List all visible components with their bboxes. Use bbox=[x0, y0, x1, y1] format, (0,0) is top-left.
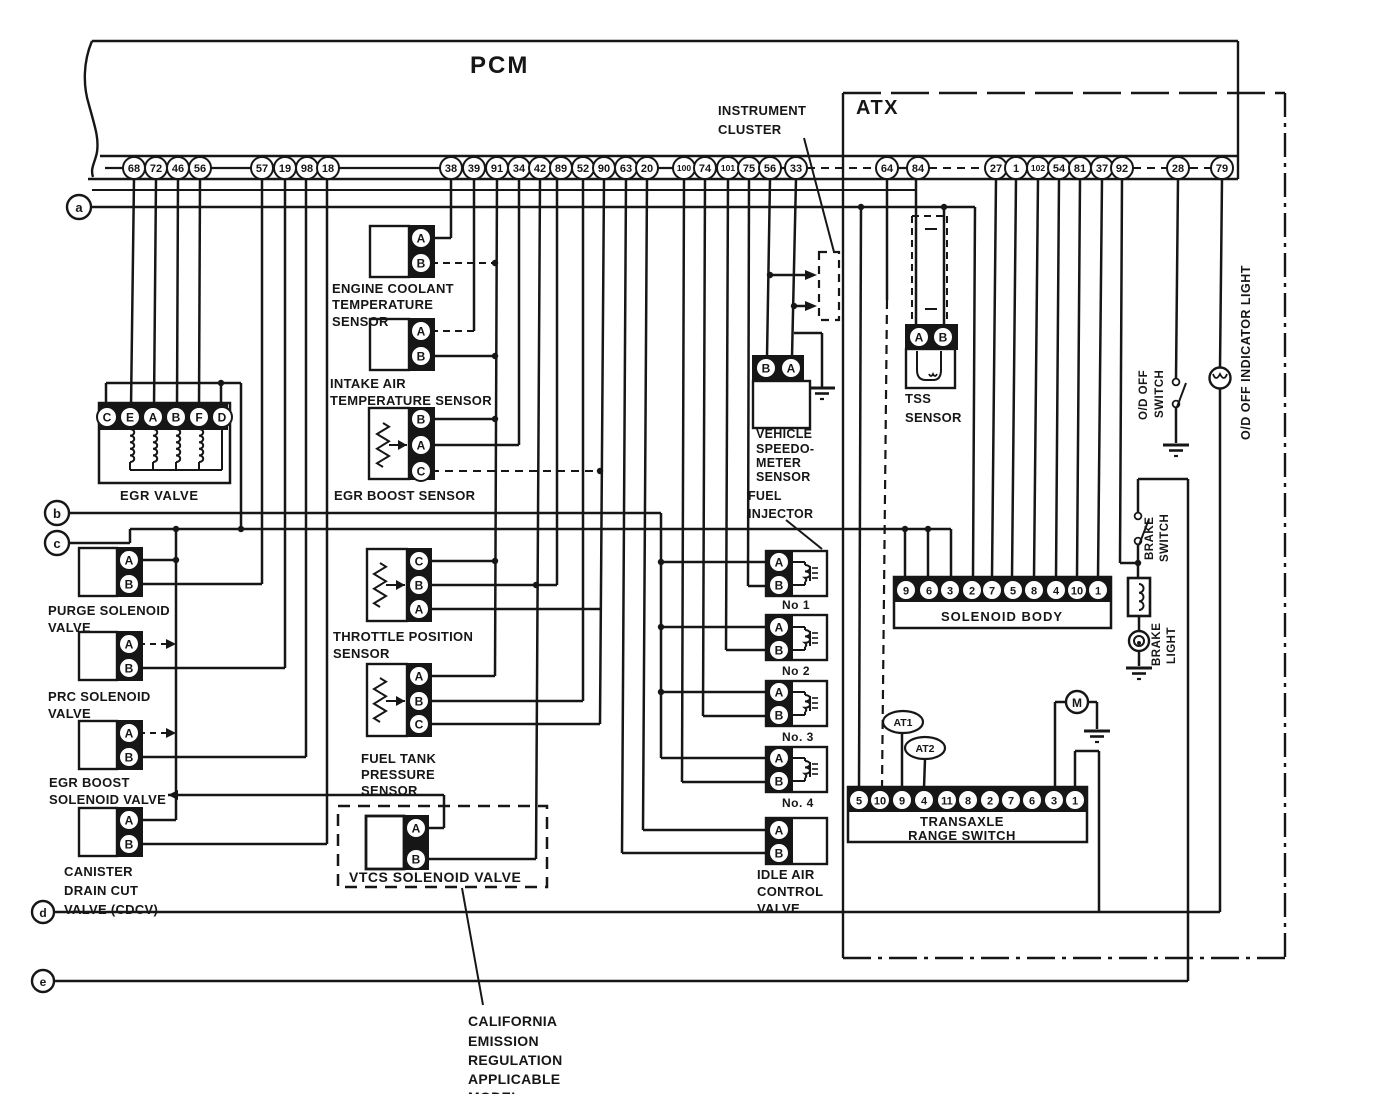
EGR boost sensor symbol bbox=[369, 408, 434, 481]
svg-text:SENSOR: SENSOR bbox=[756, 470, 811, 484]
PRC solenoid valve symbol bbox=[79, 632, 117, 680]
wire injector No2 A supply bbox=[661, 626, 766, 629]
svg-text:MODEL: MODEL bbox=[468, 1089, 520, 1094]
svg-text:O/D OFF: O/D OFF bbox=[1138, 370, 1150, 420]
svg-text:5: 5 bbox=[856, 795, 862, 807]
connector AT1 bbox=[883, 711, 923, 733]
PCM pin 84 bbox=[907, 157, 929, 179]
wire brake switch top to bus e riser bbox=[1138, 478, 1188, 481]
wire VTCS solenoid A supply with arrow bbox=[168, 790, 444, 828]
svg-text:3: 3 bbox=[1051, 795, 1057, 807]
svg-text:INTAKE AIR: INTAKE AIR bbox=[330, 376, 406, 391]
svg-text:e: e bbox=[40, 975, 47, 989]
svg-text:1: 1 bbox=[1072, 795, 1078, 807]
PCM pin 19 bbox=[274, 157, 296, 179]
fuel tank pressure sensor symbol bbox=[367, 664, 431, 736]
svg-text:B: B bbox=[417, 256, 426, 270]
svg-text:AT2: AT2 bbox=[915, 743, 934, 755]
wire IAC A to PCM pin 20 bbox=[643, 179, 766, 830]
svg-text:VEHICLE: VEHICLE bbox=[756, 427, 812, 441]
svg-text:B: B bbox=[775, 774, 784, 788]
svg-text:No 2: No 2 bbox=[782, 664, 810, 678]
transaxle range switch box bbox=[848, 787, 1087, 842]
junction a / TSS pin B wire bbox=[941, 204, 947, 210]
wire fuse to brake light bbox=[1138, 616, 1141, 631]
wire TPS A to wire 90 bbox=[429, 608, 600, 611]
wire injector No3 B to PCM pin 74 bbox=[703, 179, 766, 716]
TSS sensor connector bbox=[906, 325, 957, 349]
svg-text:A: A bbox=[417, 324, 426, 338]
svg-text:B: B bbox=[125, 750, 134, 764]
wire c to solenoid body pin 9 bbox=[904, 529, 907, 578]
svg-text:BRAKE: BRAKE bbox=[1144, 517, 1156, 560]
PCM controller box outline bbox=[85, 41, 1238, 179]
wire PCM pin 56 to VSS B bbox=[767, 179, 770, 357]
svg-text:3: 3 bbox=[947, 585, 953, 597]
svg-text:SPEEDO-: SPEEDO- bbox=[756, 442, 814, 456]
PCM pin 20 bbox=[636, 157, 658, 179]
svg-text:EMISSION: EMISSION bbox=[468, 1033, 539, 1049]
svg-text:A: A bbox=[415, 602, 424, 616]
wire PCM pin 81 to solenoid body pin 10 bbox=[1077, 179, 1080, 577]
svg-text:A: A bbox=[125, 813, 134, 827]
svg-text:No. 3: No. 3 bbox=[782, 730, 814, 744]
PCM pin 39 bbox=[463, 157, 485, 179]
svg-text:CANISTER: CANISTER bbox=[64, 864, 133, 879]
PCM pin 38 bbox=[440, 157, 462, 179]
wire c to solenoid body pin 6 bbox=[927, 529, 930, 578]
idle air control valve symbol bbox=[766, 818, 827, 864]
svg-text:TEMPERATURE: TEMPERATURE bbox=[332, 297, 433, 312]
wire FTP A end of wire 91 bbox=[429, 675, 495, 678]
wire PCM pin 37 to solenoid body pin 1 bbox=[1098, 179, 1102, 577]
page connector b bbox=[45, 501, 69, 525]
svg-text:57: 57 bbox=[256, 163, 268, 175]
svg-text:RANGE SWITCH: RANGE SWITCH bbox=[908, 828, 1016, 843]
wire PCM pin 42 to VTCS solenoid B bbox=[536, 179, 540, 859]
svg-text:98: 98 bbox=[301, 163, 313, 175]
svg-text:56: 56 bbox=[194, 163, 206, 175]
svg-text:1: 1 bbox=[1013, 163, 1019, 175]
wire injector No2 B to PCM pin 101 bbox=[726, 179, 766, 650]
wire PCM pin 64 to transaxle range switch pin 10 (dashed) bbox=[882, 179, 887, 787]
svg-text:102: 102 bbox=[1031, 163, 1045, 173]
PCM pin 101 bbox=[717, 157, 739, 179]
wire PCM pin 46 to EGR valve pin B bbox=[177, 179, 178, 407]
wire transaxle pin 3 to pump motor bbox=[1055, 702, 1066, 788]
canister drain cut valve symbol bbox=[79, 808, 117, 856]
svg-text:89: 89 bbox=[555, 163, 567, 175]
arrow wire to instrument cluster lower bbox=[794, 301, 817, 311]
EGR valve solenoid coils bbox=[130, 427, 222, 470]
svg-text:No 1: No 1 bbox=[782, 598, 810, 612]
svg-text:B: B bbox=[775, 578, 784, 592]
VEHICLE SPEEDOMETER SENSOR label bbox=[756, 427, 814, 484]
svg-text:THROTTLE POSITION: THROTTLE POSITION bbox=[333, 629, 473, 644]
svg-text:A: A bbox=[775, 620, 784, 634]
svg-text:INSTRUMENT: INSTRUMENT bbox=[718, 103, 806, 118]
svg-text:A: A bbox=[415, 669, 424, 683]
EGR valve connector strip bbox=[97, 405, 232, 429]
page connector e bbox=[32, 970, 54, 992]
wire PCM pin 84 shielded to TSS A bbox=[915, 179, 918, 328]
brake switch symbol bbox=[1135, 479, 1149, 578]
wire purge solenoid B to PCM pin 57 bbox=[139, 179, 262, 584]
svg-text:CALIFORNIA: CALIFORNIA bbox=[468, 1013, 557, 1029]
svg-text:81: 81 bbox=[1074, 163, 1086, 175]
svg-text:D: D bbox=[218, 410, 227, 424]
svg-text:A: A bbox=[915, 330, 924, 344]
svg-text:O/D OFF INDICATOR LIGHT: O/D OFF INDICATOR LIGHT bbox=[1239, 265, 1253, 440]
PCM pin 27 bbox=[985, 157, 1007, 179]
svg-text:E: E bbox=[126, 410, 134, 424]
svg-text:10: 10 bbox=[1071, 585, 1083, 597]
svg-text:FUEL TANK: FUEL TANK bbox=[361, 751, 436, 766]
wire injector No4 B to PCM pin 100 bbox=[682, 179, 766, 782]
svg-text:A: A bbox=[417, 231, 426, 245]
PCM pin 91 bbox=[486, 157, 508, 179]
svg-text:100: 100 bbox=[677, 163, 691, 173]
wire TPS C to wire 91 bbox=[429, 560, 495, 563]
svg-text:SWITCH: SWITCH bbox=[1159, 514, 1171, 562]
VTCS solenoid valve symbol bbox=[366, 816, 428, 869]
arrow wire to instrument cluster upper bbox=[770, 270, 817, 280]
svg-text:79: 79 bbox=[1216, 163, 1228, 175]
ATX transmission boundary box bbox=[843, 93, 1285, 958]
svg-text:B: B bbox=[417, 349, 426, 363]
svg-text:A: A bbox=[125, 553, 134, 567]
wire AT2 to transaxle pin 4 bbox=[924, 759, 925, 788]
PCM pin 100 bbox=[673, 157, 695, 179]
junction c / solenoid body pin 9 bbox=[902, 526, 908, 532]
svg-text:4: 4 bbox=[921, 795, 928, 807]
page connector a bbox=[67, 195, 91, 219]
PCM pin 92 bbox=[1111, 157, 1133, 179]
PCM pin 75 bbox=[738, 157, 760, 179]
svg-text:9: 9 bbox=[903, 585, 909, 597]
svg-text:No. 4: No. 4 bbox=[782, 796, 814, 810]
svg-text:6: 6 bbox=[926, 585, 932, 597]
wire PCM pin 54 to solenoid body pin 4 bbox=[1056, 179, 1059, 577]
svg-text:VALVE (CDCV): VALVE (CDCV) bbox=[64, 902, 158, 917]
wire EGR boost sensor C to wire 90 (dashed) bbox=[431, 470, 596, 472]
svg-text:B: B bbox=[775, 708, 784, 722]
purge solenoid valve symbol bbox=[79, 548, 117, 596]
EGR boost sensor internal potentiometer bbox=[377, 423, 407, 467]
svg-text:a: a bbox=[75, 200, 83, 215]
wire PCM pin 92 to brake switch bbox=[1120, 179, 1138, 563]
PCM pin 90 bbox=[593, 157, 615, 179]
wire injector No1 A supply bbox=[661, 561, 766, 564]
junction TPS C / wire 91 bbox=[492, 558, 498, 564]
fuel injector No 3 symbol bbox=[766, 681, 827, 726]
engine coolant temperature sensor symbol bbox=[370, 226, 409, 277]
junction c / EGR valve return riser bbox=[238, 526, 244, 532]
PCM pin 63 bbox=[615, 157, 637, 179]
solenoid body box bbox=[894, 577, 1111, 628]
svg-text:BRAKE: BRAKE bbox=[1151, 623, 1163, 666]
oil pump motor M bbox=[1066, 691, 1088, 713]
svg-text:B: B bbox=[775, 846, 784, 860]
svg-text:C: C bbox=[415, 554, 424, 568]
svg-text:A: A bbox=[775, 685, 784, 699]
svg-text:SOLENOID BODY: SOLENOID BODY bbox=[941, 609, 1063, 624]
svg-text:92: 92 bbox=[1116, 163, 1128, 175]
wire canister drain cut valve A to supply bbox=[139, 819, 176, 822]
wire PCM pin 102 to solenoid body pin 8 bbox=[1034, 179, 1038, 577]
svg-text:11: 11 bbox=[941, 795, 953, 807]
svg-text:A: A bbox=[412, 821, 421, 835]
fuel injector No 4 symbol bbox=[766, 747, 827, 792]
junction injector No3 A bbox=[658, 689, 664, 695]
svg-text:PURGE SOLENOID: PURGE SOLENOID bbox=[48, 603, 170, 618]
wire AT1 to transaxle pin 9 bbox=[901, 733, 904, 788]
junction VSS B / cluster arrow bbox=[767, 272, 773, 278]
O/D off indicator light lamp bbox=[1210, 368, 1231, 389]
svg-text:VTCS SOLENOID VALVE: VTCS SOLENOID VALVE bbox=[349, 869, 521, 885]
wire IAT sensor B to sensor ground wire 91 bbox=[431, 355, 495, 358]
CALIFORNIA EMISSION note bbox=[468, 1013, 563, 1094]
svg-text:64: 64 bbox=[881, 163, 894, 175]
wire EGR boost sensor A to PCM pin 34 bbox=[431, 179, 519, 445]
svg-text:39: 39 bbox=[468, 163, 480, 175]
PCM pin 68 bbox=[123, 157, 145, 179]
svg-text:B: B bbox=[415, 694, 424, 708]
svg-text:B: B bbox=[125, 837, 134, 851]
svg-text:84: 84 bbox=[912, 163, 925, 175]
junction EGR pin D riser bbox=[218, 380, 224, 386]
svg-text:7: 7 bbox=[989, 585, 995, 597]
PCM pin 79 bbox=[1211, 157, 1233, 179]
wire brake light to ground bbox=[1138, 651, 1141, 666]
wire bus d bbox=[54, 911, 1220, 914]
svg-text:SWITCH: SWITCH bbox=[1154, 370, 1166, 418]
svg-text:7: 7 bbox=[1008, 795, 1014, 807]
svg-text:34: 34 bbox=[513, 163, 526, 175]
wire purge solenoid A to supply bbox=[139, 559, 176, 562]
svg-text:VALVE: VALVE bbox=[757, 901, 800, 916]
svg-text:ATX: ATX bbox=[856, 97, 899, 119]
svg-text:EGR VALVE: EGR VALVE bbox=[120, 488, 199, 503]
svg-text:2: 2 bbox=[987, 795, 993, 807]
svg-text:IDLE AIR: IDLE AIR bbox=[757, 867, 815, 882]
svg-text:5: 5 bbox=[1010, 585, 1016, 597]
junction brake switch / pin 92 bbox=[1135, 560, 1141, 566]
PCM pin 34 bbox=[508, 157, 530, 179]
PCM pin 98 bbox=[296, 157, 318, 179]
wire IAT sensor A to PCM pin 39 (dashed) bbox=[431, 179, 474, 331]
wire injector No3 A supply bbox=[661, 691, 766, 694]
svg-text:37: 37 bbox=[1096, 163, 1108, 175]
junction a / transaxle pin 5 riser bbox=[858, 204, 864, 210]
O/D off switch ground symbol bbox=[1163, 445, 1189, 456]
svg-text:B: B bbox=[762, 361, 771, 375]
wire PCM pin 28 to O/D off switch bbox=[1176, 179, 1178, 378]
PCM pin 42 bbox=[529, 157, 551, 179]
wire PCM pin 1 to solenoid body pin 5 bbox=[1012, 179, 1016, 577]
wire EGR boost solenoid A to supply (dashed) bbox=[139, 728, 176, 738]
svg-text:TEMPERATURE SENSOR: TEMPERATURE SENSOR bbox=[330, 393, 492, 408]
svg-text:52: 52 bbox=[577, 163, 589, 175]
svg-text:CONTROL: CONTROL bbox=[757, 884, 823, 899]
wire injector No1 B to PCM pin 75 bbox=[748, 179, 766, 586]
svg-text:M: M bbox=[1072, 696, 1082, 710]
svg-text:A: A bbox=[775, 823, 784, 837]
page connector c bbox=[45, 531, 69, 555]
svg-text:SOLENOID VALVE: SOLENOID VALVE bbox=[49, 792, 166, 807]
svg-text:APPLICABLE: APPLICABLE bbox=[468, 1071, 560, 1087]
svg-text:FUEL: FUEL bbox=[748, 489, 782, 503]
svg-text:METER: METER bbox=[756, 456, 801, 470]
wire ECT sensor B to sensor ground wire 91 (dashed) bbox=[431, 262, 492, 264]
PCM pin 54 bbox=[1048, 157, 1070, 179]
svg-text:38: 38 bbox=[445, 163, 457, 175]
VSS ground stub bbox=[794, 333, 822, 387]
svg-text:27: 27 bbox=[990, 163, 1002, 175]
PCM pin 28 bbox=[1167, 157, 1189, 179]
svg-text:56: 56 bbox=[764, 163, 776, 175]
wire PCM pin 68 to EGR valve pin E bbox=[131, 179, 134, 407]
svg-text:75: 75 bbox=[743, 163, 755, 175]
wire EGR boost sensor B to wire 91 bbox=[431, 418, 495, 421]
svg-text:C: C bbox=[417, 464, 426, 478]
svg-text:B: B bbox=[172, 410, 181, 424]
PCM pin 33 bbox=[785, 157, 807, 179]
vehicle speedometer sensor symbol bbox=[753, 356, 810, 428]
wire VTCS solenoid B to PCM pin 42 bbox=[428, 858, 536, 861]
fuel tank pressure sensor internal potentiometer bbox=[374, 678, 405, 722]
svg-text:b: b bbox=[53, 506, 61, 521]
svg-text:C: C bbox=[103, 410, 112, 424]
svg-text:A: A bbox=[417, 438, 426, 452]
svg-text:PCM: PCM bbox=[470, 52, 529, 79]
PCM pin 37 bbox=[1091, 157, 1113, 179]
wire motor to ground bbox=[1088, 702, 1097, 729]
svg-text:LIGHT: LIGHT bbox=[1166, 627, 1178, 664]
throttle position sensor symbol bbox=[367, 549, 431, 621]
wire PCM pin 90 vertical bbox=[600, 179, 604, 724]
PCM pin 57 bbox=[251, 157, 273, 179]
svg-text:101: 101 bbox=[721, 163, 735, 173]
connector AT2 bbox=[905, 737, 945, 759]
svg-text:d: d bbox=[39, 906, 46, 920]
wire bus e / brake switch feed bbox=[54, 479, 1188, 981]
svg-text:8: 8 bbox=[1031, 585, 1037, 597]
page connector d bbox=[32, 901, 54, 923]
wire injector No4 A supply bbox=[661, 757, 766, 760]
svg-text:19: 19 bbox=[279, 163, 291, 175]
PCM pin 89 bbox=[550, 157, 572, 179]
svg-text:90: 90 bbox=[598, 163, 610, 175]
motor ground symbol bbox=[1084, 731, 1110, 742]
svg-text:B: B bbox=[417, 412, 426, 426]
svg-text:6: 6 bbox=[1029, 795, 1035, 807]
wire EGR boost solenoid B to PCM pin 98 bbox=[139, 179, 306, 757]
wire bus a bbox=[91, 207, 975, 577]
wire PRC solenoid B to PCM pin 19 bbox=[139, 179, 285, 668]
fuel injector No 1 symbol bbox=[766, 551, 827, 596]
svg-text:B: B bbox=[412, 852, 421, 866]
callout line fuel injector bbox=[786, 520, 822, 549]
wire IAC B to PCM pin 63 bbox=[622, 179, 766, 853]
svg-text:ENGINE COOLANT: ENGINE COOLANT bbox=[332, 281, 454, 296]
svg-text:EGR BOOST: EGR BOOST bbox=[49, 775, 130, 790]
brake light lamp bbox=[1129, 631, 1149, 651]
svg-text:B: B bbox=[775, 643, 784, 657]
svg-text:8: 8 bbox=[965, 795, 971, 807]
svg-text:PRC SOLENOID: PRC SOLENOID bbox=[48, 689, 151, 704]
fuel injector No 2 symbol bbox=[766, 615, 827, 660]
junction VSS A / cluster arrow bbox=[791, 303, 797, 309]
svg-text:91: 91 bbox=[491, 163, 503, 175]
svg-text:C: C bbox=[415, 717, 424, 731]
svg-text:c: c bbox=[53, 536, 60, 551]
brake light fuse block bbox=[1128, 578, 1150, 616]
wire transaxle pin 1 to bus d bbox=[1075, 751, 1099, 912]
wire TPS B to PCM pin 89 bbox=[429, 179, 557, 585]
junction IAT B / wire 91 bbox=[492, 353, 498, 359]
svg-text:SENSOR: SENSOR bbox=[905, 410, 962, 425]
svg-text:1: 1 bbox=[1095, 585, 1101, 597]
callout line instrument cluster bbox=[804, 138, 834, 252]
TSS sensor body bbox=[906, 349, 955, 388]
svg-text:42: 42 bbox=[534, 163, 546, 175]
svg-text:AT1: AT1 bbox=[893, 717, 912, 729]
svg-text:EGR BOOST SENSOR: EGR BOOST SENSOR bbox=[334, 488, 476, 503]
wire EGR valve pins C and D to bus c bbox=[106, 383, 241, 529]
wire PCM pin 27 to solenoid body pin 7 bbox=[992, 179, 996, 577]
intake air temperature sensor symbol bbox=[370, 319, 409, 370]
wire PRC solenoid A to supply (dashed) bbox=[139, 639, 176, 649]
callout line VTCS to California note bbox=[462, 888, 483, 1005]
svg-text:TSS: TSS bbox=[905, 391, 931, 406]
junction purge solenoid A bbox=[173, 557, 179, 563]
wire ECT sensor A to PCM pin 38 bbox=[431, 179, 451, 238]
svg-text:REGULATION: REGULATION bbox=[468, 1052, 563, 1068]
svg-text:4: 4 bbox=[1053, 585, 1060, 597]
svg-text:9: 9 bbox=[899, 795, 905, 807]
svg-text:20: 20 bbox=[641, 163, 653, 175]
wire bus b to injector supply riser bbox=[660, 513, 663, 758]
PCM pin 81 bbox=[1069, 157, 1091, 179]
svg-text:54: 54 bbox=[1053, 163, 1066, 175]
svg-text:74: 74 bbox=[699, 163, 712, 175]
wire TSS B from bus a bbox=[943, 207, 946, 328]
O/D off switch symbol bbox=[1173, 379, 1186, 443]
wire bus a to transaxle range switch pin 5 bbox=[859, 207, 861, 787]
svg-text:10: 10 bbox=[874, 795, 886, 807]
svg-text:A: A bbox=[125, 726, 134, 740]
PCM pin 64 bbox=[876, 157, 898, 179]
wire FTP C to PCM pin 90 bbox=[429, 723, 600, 726]
throttle position sensor internal potentiometer bbox=[374, 563, 405, 607]
wire PCM pin 79 to O/D off indicator light and bus d bbox=[1220, 179, 1222, 912]
svg-text:72: 72 bbox=[150, 163, 162, 175]
svg-text:28: 28 bbox=[1172, 163, 1184, 175]
PCM pin 56 bbox=[759, 157, 781, 179]
PCM pin 56 bbox=[189, 157, 211, 179]
wire from PCM band down to TSS sensor pin A bbox=[92, 189, 916, 191]
wire bus b bbox=[69, 512, 661, 515]
svg-text:B: B bbox=[415, 578, 424, 592]
wire PCM pin 56 to EGR valve pin F bbox=[199, 179, 200, 407]
svg-text:B: B bbox=[125, 661, 134, 675]
svg-text:A: A bbox=[125, 637, 134, 651]
VSS ground symbol bbox=[809, 388, 835, 399]
svg-text:TRANSAXLE: TRANSAXLE bbox=[920, 814, 1004, 829]
EGR valve body box bbox=[99, 403, 230, 483]
svg-text:CLUSTER: CLUSTER bbox=[718, 122, 782, 137]
